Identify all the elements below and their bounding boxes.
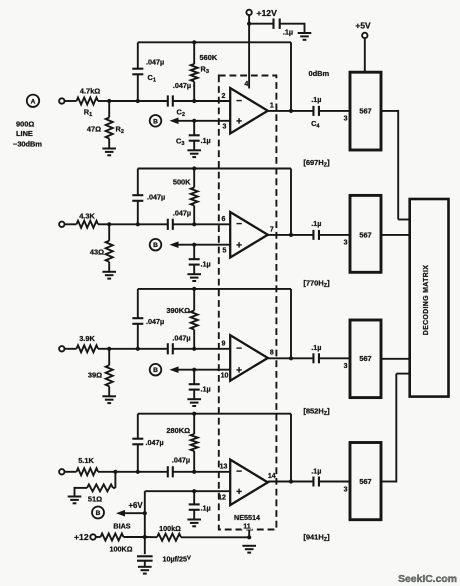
resistor 560K feedback stage 1 — [191, 42, 218, 101]
wire junction to fb-cap node stage 2 — [109, 223, 138, 225]
svg-text:.1µ: .1µ — [311, 95, 321, 104]
wire 567 U5 output to matrix — [381, 374, 410, 483]
wire Rin to junction stage 4 — [98, 471, 115, 473]
junction fb-cap node stage 2 — [136, 222, 140, 226]
svg-text:A: A — [31, 98, 36, 105]
node A — [27, 95, 39, 107]
label R1 — [84, 108, 92, 119]
svg-text:51Ω: 51Ω — [88, 495, 102, 504]
ground bias cap — [138, 567, 152, 574]
svg-text:4: 4 — [244, 81, 248, 88]
wire pin 11 — [248, 530, 250, 538]
capacitor .047u series stage 1 — [168, 81, 191, 107]
capacitor .1u non-inverting stage 1 — [189, 121, 211, 151]
pin 3 label 567 stage 3 — [344, 363, 348, 370]
input terminal stage 1 — [59, 98, 64, 103]
svg-text:−: − — [236, 344, 242, 355]
svg-text:100KΩ: 100KΩ — [110, 545, 133, 554]
wire op-amp output stage 3 — [268, 357, 314, 359]
label 941Hz — [303, 533, 330, 544]
svg-text:0dBm: 0dBm — [309, 69, 330, 78]
wire non-inverting input stage 2 — [194, 244, 230, 246]
svg-text:+: + — [236, 365, 242, 376]
junction fb-cap node stage 4 — [136, 470, 140, 474]
junction +12V rail — [247, 22, 251, 26]
capacitor .1u output stage 4 — [311, 467, 321, 487]
capacitor .047u series stage 2 — [168, 209, 191, 230]
wire inverting input stage 2 — [194, 223, 230, 225]
wire junction to fb-cap node stage 1 — [109, 100, 138, 102]
wire inverting input stage 1 — [194, 100, 230, 102]
capacitor .1u bypass on +12V — [274, 19, 294, 37]
capacitor .047u feedback stage 3 — [132, 289, 164, 349]
svg-text:.047µ: .047µ — [146, 317, 164, 326]
svg-text:12: 12 — [218, 494, 226, 501]
wire pin 12 line — [145, 490, 230, 492]
svg-text:.047µ: .047µ — [146, 438, 164, 447]
junction pin 12 cap node — [192, 489, 196, 493]
capacitor .1u non-inverting stage 4 — [189, 491, 211, 519]
svg-text:B: B — [153, 367, 158, 374]
svg-text:.1µ: .1µ — [311, 343, 321, 352]
wire output cap to 567 stage 4 — [319, 481, 350, 483]
bias terminal +12 — [74, 532, 96, 542]
svg-text:.047µ: .047µ — [173, 209, 191, 218]
capacitor .047u feedback stage 1 — [132, 42, 164, 101]
arrow to node B stage 2 — [170, 241, 195, 248]
svg-text:6: 6 — [222, 216, 226, 223]
label C3 — [176, 137, 184, 148]
label C1 — [148, 73, 156, 84]
ground bypass +12V — [298, 33, 312, 40]
wire series cap to inverting node stage 4 — [173, 471, 194, 473]
junction feedback top stage 2 — [192, 166, 196, 170]
svg-text:SeekIC.com: SeekIC.com — [398, 574, 457, 585]
resistor 5.1K input stage 4 — [77, 456, 99, 475]
wire +12V to junction — [248, 15, 250, 24]
svg-text:7: 7 — [270, 226, 274, 233]
svg-text:567: 567 — [359, 107, 371, 116]
svg-text:8: 8 — [270, 350, 274, 357]
svg-text:DECODING MATRIX: DECODING MATRIX — [423, 265, 430, 336]
tone decoder 567 U5 stage 4 — [350, 443, 381, 520]
capacitor .047u feedback stage 4 — [132, 414, 163, 472]
wire series cap to inverting node stage 2 — [173, 223, 194, 225]
junction output node stage 1 — [289, 109, 293, 113]
wire +6V feed down — [144, 491, 146, 537]
svg-text:NE5514: NE5514 — [234, 513, 260, 522]
wire non-inverting input stage 1 — [194, 120, 230, 122]
capacitor .1u output stage 2 — [311, 219, 321, 240]
svg-text:13: 13 — [220, 464, 228, 471]
svg-text:100kΩ: 100kΩ — [159, 524, 181, 533]
resistor 43&#937; shunt stage 2 — [90, 241, 113, 262]
ground shunt stage 2 — [102, 272, 116, 279]
wire fb-cap node to series cap stage 2 — [138, 223, 168, 225]
junction non-inverting node stage 3 — [192, 368, 196, 372]
junction output node stage 4 — [289, 479, 293, 483]
pin 8 label — [270, 350, 274, 357]
power terminal +12V — [246, 8, 277, 18]
wire +5V to 567 U2 — [364, 38, 366, 72]
wire 100k to pin 11 ground node — [181, 536, 249, 538]
svg-text:3.9K: 3.9K — [79, 334, 95, 343]
svg-text:5.1K: 5.1K — [78, 456, 94, 465]
resistor 47&#937; shunt stage 1 — [87, 118, 113, 139]
wire bypass cap to ground — [280, 23, 305, 33]
ground shunt stage 3 — [102, 396, 116, 403]
wire input to Rin stage 3 — [65, 348, 77, 350]
wire non-inverting input stage 3 — [194, 369, 230, 371]
op-amp U1 stage 3 — [230, 335, 268, 381]
wire junction down to 51 ohm — [113, 472, 115, 488]
svg-text:.1µ: .1µ — [201, 504, 211, 513]
label 900 ohm LINE -30dBm — [13, 120, 42, 149]
resistor 390K&#937; feedback stage 3 — [166, 289, 197, 349]
arrow to node B stage 4 +6V — [116, 501, 145, 517]
op-amp U1 stage 4 — [230, 460, 268, 506]
wire +12 to 100K bias — [96, 536, 101, 538]
wire input to Rin stage 1 — [65, 100, 77, 102]
wire bias cap to ground — [144, 561, 146, 567]
svg-text:+6V: +6V — [128, 501, 143, 510]
op-amp package NE5514 dashed outline — [219, 76, 277, 530]
label C2 — [177, 108, 185, 119]
wire 51 ohm to ground — [75, 487, 88, 497]
input terminal stage 4 — [59, 469, 64, 474]
wire output cap to 567 stage 1 — [319, 110, 350, 112]
wire Rin to junction stage 2 — [98, 223, 109, 225]
label C4 — [311, 119, 320, 130]
resistor 4.7k&#937; input stage 1 — [77, 87, 101, 105]
svg-text:10: 10 — [221, 373, 229, 380]
pin 5 label — [223, 248, 227, 255]
svg-text:+: + — [236, 487, 242, 498]
wire Rin to junction stage 3 — [98, 348, 109, 350]
svg-text:500K: 500K — [173, 178, 191, 187]
wire junction to shunt resistor stage 2 — [108, 224, 110, 241]
node B stage 1 — [150, 115, 162, 127]
ground non-inverting stage 3 — [187, 399, 201, 406]
svg-text:4.7kΩ: 4.7kΩ — [80, 87, 100, 96]
svg-text:3: 3 — [344, 486, 348, 493]
ground non-inverting stage 4 — [187, 520, 201, 527]
resistor 4.3K input stage 2 — [77, 212, 99, 228]
svg-text:10µf/25V: 10µf/25V — [163, 555, 192, 564]
pin 13 label — [220, 464, 228, 471]
arrow to node B stage 3 — [170, 366, 195, 373]
junction non-inverting node stage 1 — [192, 119, 196, 123]
svg-text:3: 3 — [344, 363, 348, 370]
svg-text:.1µ: .1µ — [283, 28, 293, 37]
junction input node stage 3 — [107, 347, 111, 351]
svg-text:5: 5 — [223, 248, 227, 255]
svg-text:BIAS: BIAS — [113, 522, 130, 531]
pin 11 label — [242, 521, 253, 531]
svg-text:4.3K: 4.3K — [79, 212, 95, 221]
junction inverting node stage 4 — [192, 470, 196, 474]
capacitor .047u series stage 4 — [168, 456, 190, 478]
svg-text:9: 9 — [222, 341, 226, 348]
capacitor .047u feedback stage 2 — [132, 169, 165, 225]
wire shunt resistor to ground stage 2 — [108, 262, 110, 272]
svg-text:.047µ: .047µ — [173, 81, 191, 90]
tone decoder 567 U2 stage 1 — [350, 72, 381, 150]
label R3 — [201, 65, 209, 76]
svg-text:+5V: +5V — [355, 21, 371, 31]
pin 14 label — [268, 473, 276, 480]
wire series cap to inverting node stage 1 — [173, 100, 194, 102]
resistor 51 ohm shunt stage 4 — [87, 484, 113, 503]
wire op-amp output stage 2 — [268, 234, 314, 236]
svg-text:+12: +12 — [74, 532, 89, 542]
ground non-inverting stage 2 — [187, 274, 201, 281]
junction input node stage 2 — [107, 222, 111, 226]
svg-text:3: 3 — [223, 124, 227, 131]
capacitor .1u non-inverting stage 2 — [189, 245, 211, 275]
junction input node stage 1 — [107, 99, 111, 103]
resistor 100K bias — [101, 522, 133, 554]
pin 4 label — [244, 81, 248, 88]
pin 3 label 567 stage 4 — [344, 486, 348, 493]
capacitor .047u series stage 3 — [168, 334, 191, 355]
wire output cap to 567 stage 2 — [319, 234, 350, 236]
junction bias node +6V — [143, 535, 147, 539]
wire op-amp output stage 1 — [268, 110, 314, 112]
svg-text:1: 1 — [270, 102, 274, 109]
pin 7 label — [270, 226, 274, 233]
svg-text:.1µ: .1µ — [201, 260, 211, 269]
wire feedback line stage 2 — [138, 169, 291, 235]
svg-text:560K: 560K — [200, 53, 218, 62]
svg-text:567: 567 — [359, 231, 371, 240]
svg-text:.047µ: .047µ — [146, 58, 164, 67]
svg-text:B: B — [96, 510, 101, 517]
wire junction to shunt resistor stage 1 — [108, 101, 110, 118]
svg-text:390KΩ: 390KΩ — [166, 306, 190, 315]
svg-text:.047µ: .047µ — [172, 334, 190, 343]
svg-text:280KΩ: 280KΩ — [166, 426, 190, 435]
svg-text:.1µ: .1µ — [311, 467, 321, 476]
capacitor .1u non-inverting stage 3 — [189, 370, 211, 400]
svg-text:900Ω: 900Ω — [16, 120, 34, 129]
pin 6 label — [222, 216, 226, 223]
svg-text:2: 2 — [222, 93, 226, 100]
junction output node stage 3 — [289, 356, 293, 360]
node B stage 2 — [150, 239, 162, 251]
wire fb-cap node to series cap stage 3 — [138, 348, 168, 350]
label NE5514 — [234, 513, 260, 522]
svg-text:−: − — [236, 219, 242, 230]
junction feedback top stage 1 — [192, 40, 196, 44]
svg-text:11: 11 — [243, 522, 251, 531]
wire input to Rin stage 4 — [65, 471, 77, 473]
svg-text:B: B — [153, 242, 158, 249]
label 852Hz — [303, 407, 330, 418]
wire 567 U4 output to matrix — [381, 358, 410, 360]
junction inverting node stage 2 — [192, 222, 196, 226]
pin 1 label — [270, 102, 274, 109]
svg-text:B: B — [153, 118, 158, 125]
svg-text:.1µ: .1µ — [311, 219, 321, 228]
wire bias junction to 100k — [145, 536, 157, 538]
input terminal stage 3 — [59, 346, 64, 351]
label 0dBm — [309, 69, 330, 78]
op-amp U1 stage 2 — [230, 212, 268, 258]
svg-text:3: 3 — [344, 240, 348, 247]
svg-text:47Ω: 47Ω — [87, 125, 101, 134]
svg-text:.047µ: .047µ — [172, 456, 190, 465]
svg-text:.1µ: .1µ — [201, 136, 211, 145]
svg-text:−: − — [236, 467, 242, 478]
label 770Hz — [303, 279, 330, 290]
svg-text:−: − — [236, 96, 242, 107]
ground shunt stage 1 — [102, 149, 116, 156]
arrow to node B stage 1 — [170, 118, 195, 125]
label 697Hz — [303, 158, 330, 169]
svg-text:3: 3 — [344, 116, 348, 123]
resistor 500K feedback stage 2 — [173, 169, 198, 225]
junction feedback top stage 4 — [192, 412, 196, 416]
ground 51 ohm — [68, 497, 82, 504]
ground pin 11 — [242, 546, 256, 553]
junction +6V arrow branch — [143, 511, 147, 515]
wire shunt resistor to ground stage 1 — [108, 139, 110, 149]
pin 3 label 567 stage 2 — [344, 240, 348, 247]
svg-text:567: 567 — [359, 354, 371, 363]
wire 100K to bias junction — [124, 536, 145, 538]
wire fb-cap node to series cap stage 4 — [138, 471, 168, 473]
resistor 3.9K input stage 3 — [77, 334, 99, 352]
svg-text:567: 567 — [359, 477, 371, 486]
power terminal +5V — [355, 21, 371, 39]
svg-text:.047µ: .047µ — [147, 193, 165, 202]
node B stage 4 — [92, 507, 104, 519]
wire shunt resistor to ground stage 3 — [108, 386, 110, 396]
wire 567 U3 output to matrix — [381, 234, 410, 236]
svg-text:LINE: LINE — [16, 129, 33, 138]
wire output cap to 567 stage 3 — [319, 357, 350, 359]
node B stage 3 — [150, 364, 162, 376]
wire junction to fb-cap node stage 3 — [109, 348, 138, 350]
junction pin 11 ground node — [247, 535, 251, 539]
decoding matrix block — [410, 199, 449, 397]
svg-text:−30dBm: −30dBm — [13, 140, 42, 149]
wire feedback line stage 3 — [138, 289, 291, 358]
wire op-amp output stage 4 — [268, 481, 314, 483]
junction fb-cap node stage 1 — [136, 99, 140, 103]
svg-text:43Ω: 43Ω — [90, 248, 104, 257]
wire feedback line stage 4 — [138, 414, 291, 482]
resistor 100k bias to pin 11 — [157, 524, 181, 541]
input terminal stage 2 — [59, 222, 64, 227]
junction non-inverting node stage 2 — [192, 243, 196, 247]
wire inverting input stage 3 — [194, 348, 230, 350]
resistor 280K&#937; feedback stage 4 — [166, 414, 197, 472]
capacitor .1u output stage 3 — [311, 343, 321, 363]
svg-text:+: + — [236, 116, 242, 127]
pin 12 label — [218, 494, 226, 501]
wire fb-cap node to series cap stage 1 — [138, 100, 168, 102]
watermark SeekIC.com — [398, 574, 457, 585]
wire Rin to junction stage 1 — [98, 100, 109, 102]
pin 10 label — [221, 373, 229, 380]
wire junction to fb-cap node stage 4 — [115, 471, 137, 473]
capacitor 10uf/25V bias — [137, 537, 191, 564]
svg-text:14: 14 — [268, 473, 276, 480]
wire +12V junction to bypass cap — [249, 23, 274, 25]
pin 3 label 567 stage 1 — [344, 116, 348, 123]
junction inverting node stage 1 — [192, 99, 196, 103]
svg-text:+12V: +12V — [257, 8, 278, 18]
pin 9 label — [222, 341, 226, 348]
junction output node stage 2 — [289, 233, 293, 237]
tone decoder 567 U4 stage 3 — [350, 320, 381, 398]
junction inverting node stage 3 — [192, 347, 196, 351]
wire 567 U2 output to matrix — [381, 110, 410, 220]
resistor 39&#937; shunt stage 3 — [88, 365, 113, 386]
ground non-inverting stage 1 — [187, 150, 201, 157]
wire inverting input stage 4 — [194, 471, 230, 473]
label R2 — [116, 125, 124, 136]
pin 3 label — [223, 124, 227, 131]
junction feedback top stage 3 — [192, 287, 196, 291]
tone decoder 567 U3 stage 2 — [350, 195, 381, 272]
junction input node stage 4 — [113, 470, 117, 474]
wire junction to shunt resistor stage 3 — [108, 349, 110, 366]
capacitor .1u output stage 1 — [311, 95, 321, 116]
svg-text:.1µ: .1µ — [201, 385, 211, 394]
wire series cap to inverting node stage 3 — [173, 348, 194, 350]
svg-text:39Ω: 39Ω — [88, 371, 102, 380]
op-amp U1 stage 1 — [230, 88, 268, 134]
junction fb-cap node stage 3 — [136, 347, 140, 351]
wire feedback line stage 1 — [138, 42, 291, 111]
wire input to Rin stage 2 — [65, 223, 77, 225]
svg-text:+: + — [236, 240, 242, 251]
pin 2 label — [222, 93, 226, 100]
wire pin 4 supply — [248, 24, 250, 89]
